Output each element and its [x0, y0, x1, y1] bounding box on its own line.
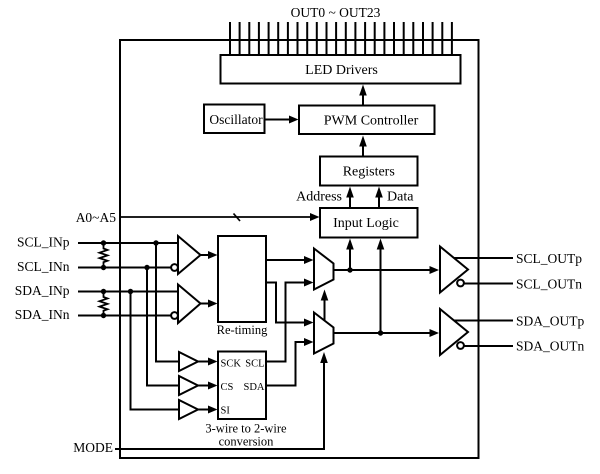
- svg-text:Data: Data: [387, 190, 414, 205]
- svg-text:OUT0 ~ OUT23: OUT0 ~ OUT23: [291, 5, 381, 20]
- svg-text:SCK: SCK: [221, 359, 242, 370]
- svg-text:SCL_INp: SCL_INp: [17, 235, 70, 250]
- svg-text:SCL_OUTp: SCL_OUTp: [516, 251, 582, 266]
- svg-text:SDA_OUTn: SDA_OUTn: [516, 339, 585, 354]
- svg-text:Re-timing: Re-timing: [217, 323, 268, 337]
- svg-text:3-wire to 2-wire: 3-wire to 2-wire: [205, 422, 287, 436]
- svg-text:SDA_OUTp: SDA_OUTp: [516, 314, 585, 329]
- svg-text:LED Drivers: LED Drivers: [305, 63, 378, 78]
- svg-text:Registers: Registers: [343, 165, 395, 180]
- svg-text:SDA_INn: SDA_INn: [15, 307, 70, 322]
- svg-text:CS: CS: [221, 382, 234, 393]
- svg-text:Oscillator: Oscillator: [209, 112, 263, 127]
- svg-text:SI: SI: [221, 406, 231, 417]
- svg-text:SCL_INn: SCL_INn: [17, 259, 70, 274]
- svg-text:A0~A5: A0~A5: [76, 210, 117, 225]
- svg-text:conversion: conversion: [219, 435, 275, 449]
- svg-text:SDA_INp: SDA_INp: [15, 283, 70, 298]
- svg-text:Input Logic: Input Logic: [333, 216, 399, 231]
- svg-text:SCL_OUTn: SCL_OUTn: [516, 277, 582, 292]
- svg-text:SCL: SCL: [245, 359, 264, 370]
- svg-text:PWM Controller: PWM Controller: [324, 114, 419, 129]
- svg-text:Address: Address: [296, 190, 342, 205]
- svg-text:SDA: SDA: [243, 382, 264, 393]
- svg-text:MODE: MODE: [73, 440, 113, 455]
